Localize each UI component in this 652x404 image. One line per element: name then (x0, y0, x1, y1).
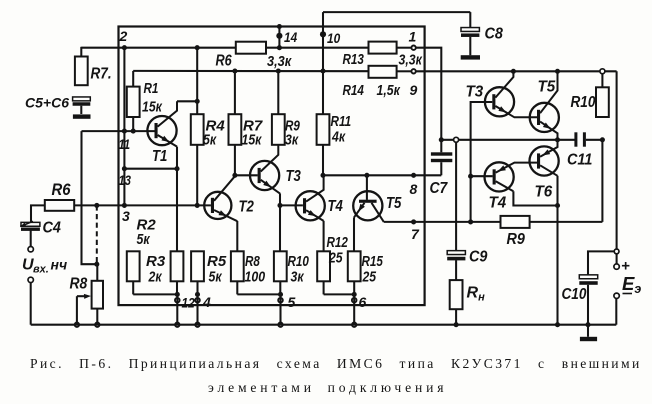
pin 12 terminal (175, 298, 180, 303)
svg-text:нч: нч (51, 257, 68, 273)
caption line 1 (30, 356, 642, 371)
svg-text:R8: R8 (70, 276, 88, 293)
svg-text:2к: 2к (148, 269, 163, 286)
wire R1 top lead (132, 71, 134, 87)
label R9 external (507, 231, 525, 248)
wire C10 bottom through bus to ground (587, 285, 589, 337)
IC K2US371 boundary box (119, 27, 425, 306)
svg-text:R12: R12 (327, 234, 349, 251)
svg-text:T3: T3 (466, 84, 484, 101)
label C10 (562, 286, 587, 303)
label T5 external (538, 79, 557, 96)
ground symbol below C10 (580, 337, 597, 341)
svg-text:2: 2 (119, 28, 128, 44)
caption line 2 (208, 380, 447, 395)
junction bus Rn (454, 322, 459, 327)
svg-text:T6: T6 (535, 184, 553, 201)
terminal Ee minus (614, 293, 619, 298)
wire C10 top to plus node (588, 251, 614, 275)
wire pin12 drop (176, 294, 178, 324)
wire external ground bus (31, 324, 617, 326)
svg-text:6: 6 (359, 294, 367, 310)
svg-text:C11: C11 (567, 152, 592, 169)
label R8 internal (245, 253, 260, 270)
svg-text:3,3к: 3,3к (267, 53, 292, 70)
capacitor C4 (20, 221, 40, 231)
junction pin10/R11 rail (320, 68, 325, 73)
wire C7 top lead (440, 140, 442, 153)
capacitor C11 (574, 132, 586, 146)
svg-text:R8: R8 (245, 253, 260, 270)
transistor T4 internal (296, 175, 325, 221)
capacitor C8 (461, 28, 479, 37)
resistor R7 external (75, 57, 88, 86)
svg-text:R13: R13 (343, 51, 365, 68)
label R10 external (571, 94, 596, 111)
wire T2 emitter down to R8int (236, 221, 238, 251)
junction R7int top (232, 68, 237, 73)
svg-text:C4: C4 (43, 220, 61, 237)
label R9 internal value (285, 132, 299, 149)
svg-text:T4: T4 (328, 198, 344, 215)
label R2 (137, 217, 157, 234)
svg-text:T2: T2 (239, 199, 255, 216)
transistor T3 internal (250, 145, 280, 194)
resistor R10 internal 3k (274, 251, 287, 281)
junction pin13 bus (122, 166, 127, 171)
transistor T3 external (485, 71, 537, 117)
wire R8int-R10int bottom bus (237, 293, 280, 295)
junction T5int base (364, 173, 369, 178)
label C8 (485, 26, 503, 43)
pin 1 terminal (411, 46, 415, 50)
label pin 7 (411, 226, 420, 242)
junction pin7 T3/T4 base (468, 219, 473, 224)
junction pin7 marker (411, 219, 416, 224)
wire C9 to Rn (455, 260, 457, 280)
label R13 value (399, 52, 423, 69)
junction dashed top (94, 203, 99, 208)
label C9 (469, 249, 487, 266)
label T4 internal (328, 198, 344, 215)
pin 6 terminal (352, 298, 357, 303)
input terminal lower (28, 277, 33, 282)
wire C8 top lead (469, 12, 471, 28)
label pin 5 (288, 294, 296, 310)
label input voltage U vx nch (22, 257, 67, 276)
wire pin7 row left part (384, 221, 501, 223)
transistor T2 (204, 176, 237, 221)
label R12 value (328, 250, 343, 267)
capacitor C10 (579, 275, 597, 285)
resistor R8 internal 100 (231, 251, 244, 281)
junction T5ext collector rail (555, 69, 560, 74)
label R2 value (137, 231, 151, 248)
transistor T6 external (530, 140, 559, 176)
svg-text:3к: 3к (285, 132, 299, 149)
wire R12 bottom lead (323, 281, 325, 294)
wire T1 emitter down to R3 (176, 147, 178, 252)
junction-ring bus pin4 (195, 323, 199, 327)
label T5 internal (386, 195, 402, 212)
junction-ring bus pin6 (352, 323, 356, 327)
wire R6 to R13 row (266, 47, 369, 49)
label pin 4 (202, 294, 211, 310)
svg-text:15к: 15к (242, 132, 263, 149)
svg-text:5к: 5к (203, 132, 217, 149)
svg-text:C7: C7 (430, 180, 449, 197)
svg-text:вх.: вх. (33, 264, 49, 276)
label R6 internal (216, 53, 232, 70)
pin 9 terminal (411, 69, 415, 73)
transistor T5 external (530, 71, 559, 140)
svg-text:R11: R11 (331, 113, 352, 130)
label R5 (207, 253, 227, 270)
label R1 value (142, 99, 163, 116)
label R15 (362, 253, 384, 270)
label R8 internal value (245, 269, 266, 286)
wire T3int emitter node to T4int base (280, 204, 303, 206)
wire T4int emitter down to R12 (323, 221, 325, 252)
label R7 external (91, 66, 112, 83)
wire R11 bottom lead (322, 145, 324, 176)
svg-text:11: 11 (119, 136, 131, 152)
svg-text:7: 7 (411, 226, 420, 242)
wire R8ext wiper arm (77, 295, 88, 297)
pin 14 marker (276, 33, 282, 39)
junction pin14 top (277, 24, 282, 29)
junction-ring bus pin12 (175, 323, 179, 327)
label plus sign (621, 258, 630, 275)
transistor T1 (147, 101, 177, 146)
svg-text:R7.: R7. (91, 66, 112, 83)
wire R7int top lead (234, 71, 236, 114)
ground symbol below C5+C6 (73, 114, 91, 118)
wire pin7 row right of R9ext (530, 221, 603, 223)
label C11 (567, 152, 592, 169)
label pin 8 (410, 181, 418, 197)
capacitor C5+C6 (73, 97, 91, 114)
svg-text:25: 25 (328, 250, 343, 267)
wire pin10 top to C8 (323, 11, 470, 13)
resistor R9 external (501, 216, 530, 228)
label T3 external (466, 84, 484, 101)
wire pin8 row to C7 (323, 174, 441, 176)
svg-text:8: 8 (410, 181, 418, 197)
label pin 3 (122, 208, 130, 224)
terminal Ee plus (614, 264, 619, 269)
potentiometer R8 external (84, 281, 103, 309)
junction pin8 marker (411, 173, 416, 178)
label R10 internal value (291, 269, 305, 286)
wire T4ext collector to T6 collector node (513, 191, 557, 205)
svg-text:T5: T5 (386, 195, 402, 212)
wire output node row (441, 139, 575, 141)
label pin 2 (119, 28, 128, 44)
junction T3ext collector rail (511, 69, 516, 74)
wire R2-R3 bottom bus (133, 293, 177, 295)
svg-text:T5: T5 (538, 79, 557, 96)
pin 10 marker (320, 31, 326, 37)
junction T1 collector (195, 99, 200, 104)
wire R8ext wiper down to bus (76, 296, 78, 325)
wire R2 bottom lead (132, 281, 134, 294)
label R4 (206, 118, 226, 135)
label R9 internal (285, 118, 300, 135)
wire pin 14 stub (278, 27, 280, 48)
input terminal upper (28, 247, 33, 252)
svg-text:3,3к: 3,3к (399, 52, 423, 69)
resistor R14 1.5k (369, 66, 397, 78)
wire R3 bottom lead (176, 281, 178, 294)
wire left pin bus (pins 2-11-13-3) (123, 48, 125, 206)
label R12 (327, 234, 349, 251)
svg-text:T4: T4 (489, 195, 507, 212)
wire C4 bottom stub (30, 230, 32, 246)
label C5+C6 (25, 95, 69, 111)
wire R15 bottom lead (353, 281, 355, 294)
svg-text:элементами подключения: элементами подключения (208, 380, 447, 395)
resistor R9 internal 3k (272, 114, 285, 145)
svg-text:3к: 3к (291, 269, 305, 286)
wire R10ext bottom column (601, 140, 603, 222)
wire Rn bottom lead (455, 309, 457, 325)
junction C7 top node (439, 137, 444, 142)
svg-text:R3: R3 (146, 253, 166, 270)
wire R4 bottom to T2 base row (196, 145, 198, 206)
svg-text:4: 4 (202, 294, 211, 310)
junction pin14 row (277, 45, 282, 50)
junction T4/T6 ext collectors (555, 203, 560, 208)
label C4 (43, 220, 61, 237)
wire T3ext base branch (471, 102, 493, 222)
pin 5 terminal (278, 298, 283, 303)
svg-text:3: 3 (122, 208, 130, 224)
junction R8ext top (94, 262, 99, 267)
wire rail corner down to + terminal (616, 71, 618, 251)
junction R4 top (195, 45, 200, 50)
junction bus T6 collector (555, 322, 560, 327)
label R7 internal (243, 118, 263, 135)
svg-text:R6: R6 (216, 53, 232, 70)
resistor R7 internal 15k (229, 114, 242, 145)
wire pin6 drop (353, 294, 355, 324)
wire pin11 branch down to R8 node (82, 131, 98, 264)
node C9 branch circle (454, 137, 459, 142)
junction pin3 bus (122, 203, 127, 208)
wire R9int top lead (277, 71, 279, 114)
resistor R5 5k (191, 251, 204, 281)
resistor R3 2k (171, 251, 184, 281)
transistor T4 external (485, 162, 538, 191)
wire C8 bottom lead (469, 37, 471, 55)
svg-text:Рис. П-6. Принципиальная схема: Рис. П-6. Принципиальная схема ИМС6 типа… (30, 356, 642, 371)
junction pin11 bus (122, 129, 127, 134)
wire R13 to pin 1 (397, 47, 411, 49)
wire C11 right plate to R10 node (586, 139, 603, 141)
junction R10ext bottom (600, 137, 605, 142)
svg-text:10: 10 (327, 30, 340, 46)
wire input lower terminal to ground bus (30, 283, 32, 325)
wire pin3 row to T2 base (74, 204, 211, 206)
wire R10int bottom lead (279, 281, 281, 294)
wire R8ext top lead (96, 264, 98, 281)
label R6 external (52, 181, 72, 199)
label pin 12 (182, 295, 195, 311)
label T2 (239, 199, 255, 216)
label R6 internal value (267, 53, 292, 70)
label R4 value (203, 132, 217, 149)
wire R5 / pin4 drop (196, 281, 198, 324)
label R11 value (331, 129, 346, 146)
svg-text:15к: 15к (142, 99, 163, 116)
svg-text:R1: R1 (144, 80, 159, 97)
capacitor C7 (431, 152, 452, 162)
node R10ext top circle (600, 69, 605, 74)
label pin 1 (409, 29, 417, 45)
label T4 external (489, 195, 507, 212)
label T6 external (535, 184, 553, 201)
resistor R10 external (596, 87, 609, 117)
wire T1 collector jog (177, 100, 197, 102)
wire C7 bottom lead (440, 162, 442, 175)
junction R4 bottom (195, 203, 200, 208)
resistor R1 15k (127, 87, 140, 117)
junction T2 collector/R7int (232, 173, 237, 178)
wire pin10 / R11 column (322, 12, 324, 114)
label T1 (152, 148, 167, 165)
svg-text:R10: R10 (288, 253, 310, 270)
wire R4 column from pin2 row (196, 48, 198, 115)
label R1 (144, 80, 159, 97)
svg-text:R6: R6 (52, 181, 72, 199)
junction T4ext base (468, 174, 473, 179)
svg-text:+: + (621, 258, 630, 275)
ground symbol below C8 (461, 55, 480, 59)
label R14 (343, 82, 365, 99)
transistor T5 internal (353, 191, 384, 222)
junction-ring bus R8 wiper (75, 323, 79, 327)
wire R7 top lead (80, 47, 82, 57)
resistor R12 25 (317, 251, 330, 281)
label C7 (430, 180, 449, 197)
label R7 internal value (242, 132, 263, 149)
svg-text:13: 13 (119, 172, 132, 188)
svg-text:R9: R9 (507, 231, 525, 248)
junction R9int top (276, 68, 281, 73)
svg-text:5к: 5к (137, 231, 151, 248)
svg-text:R14: R14 (343, 82, 365, 99)
wire pin13 stub to T1 emitter (124, 168, 177, 170)
svg-text:C10: C10 (562, 286, 587, 303)
wire dashed link R6 node to R8 node (96, 205, 98, 264)
label Rn load (467, 285, 486, 304)
label R15 value (362, 269, 377, 286)
label R3 value (148, 269, 163, 286)
wire plus terminal stub (616, 254, 618, 264)
svg-text:T3: T3 (286, 168, 302, 185)
junction-ring bus pin5 (278, 323, 282, 327)
resistor R4 5k (191, 114, 204, 145)
label R5 value (209, 269, 223, 286)
svg-text:R15: R15 (362, 253, 384, 270)
svg-text:100: 100 (245, 269, 266, 286)
junction pin13 end (174, 166, 179, 171)
label pin 11 (119, 136, 131, 152)
svg-text:C5+C6: C5+C6 (25, 95, 69, 111)
svg-text:5к: 5к (209, 269, 223, 286)
junction R10int bottom bus (278, 292, 283, 297)
resistor Rn load (450, 280, 463, 309)
wire R7int bottom lead (234, 145, 236, 176)
junction pin2 at IC (122, 45, 127, 50)
wire R10ext top lead (601, 71, 603, 87)
wire R8ext bottom lead (96, 309, 98, 325)
svg-text:R10: R10 (571, 94, 596, 111)
wire T5int base lead (366, 175, 368, 200)
label pin 6 (359, 294, 367, 310)
svg-text:1,5к: 1,5к (377, 82, 401, 99)
wire R14 right to pin 9 (397, 70, 411, 72)
wire pin1 external jog down to C7 node (416, 48, 441, 140)
capacitor C9 (447, 251, 465, 261)
svg-text:25: 25 (362, 269, 377, 286)
junction-ring bus R8 bottom (95, 323, 99, 327)
junction T5/T6 ext emitters (555, 137, 560, 142)
label minus sign (623, 293, 633, 295)
wire T3int base (235, 174, 258, 176)
pin 4 terminal (195, 298, 200, 303)
wire R1 bottom lead (132, 117, 134, 131)
resistor R2 5k (127, 251, 140, 281)
label pin 14 (284, 29, 297, 45)
resistor R6 external (45, 200, 74, 211)
junction R3 bottom (175, 292, 180, 297)
wire ground bus right end up to minus terminal (615, 299, 617, 325)
resistor R6 internal 3.3k (236, 42, 266, 54)
junction R1 bottom (131, 129, 136, 134)
svg-text:14: 14 (284, 29, 297, 45)
junction R11 bottom (320, 173, 325, 178)
label R13 (343, 51, 365, 68)
svg-text:C9: C9 (469, 249, 487, 266)
svg-text:T1: T1 (152, 148, 167, 165)
junction T3int emitter (277, 203, 282, 208)
wire T5int emitter down to R15 (353, 217, 355, 251)
label T3 internal (286, 168, 302, 185)
wire T4ext base (471, 175, 493, 177)
svg-text:C8: C8 (485, 26, 503, 43)
svg-text:12: 12 (182, 295, 195, 311)
svg-text:9: 9 (410, 82, 418, 98)
wire pin5 drop (279, 294, 281, 324)
wire T6ext collector down to ground bus (556, 176, 558, 325)
svg-text:5: 5 (288, 294, 296, 310)
label pin 13 (119, 172, 132, 188)
wire supply rail internal (133, 70, 368, 72)
svg-text:R5: R5 (207, 253, 227, 270)
resistor R15 25 (348, 251, 361, 281)
resistor R13 3.3k (369, 42, 397, 54)
wire pin11 row to T1 base (82, 130, 155, 132)
label pin 9 (410, 82, 418, 98)
wire pin2 row internal to R6 (124, 47, 235, 49)
label R3 (146, 253, 166, 270)
node plus junction circle (614, 249, 619, 254)
junction R15 bottom bus (352, 292, 357, 297)
wire R12-R15 bottom bus (324, 293, 355, 295)
wire R6ext left lead and drop to C4 (31, 205, 45, 223)
